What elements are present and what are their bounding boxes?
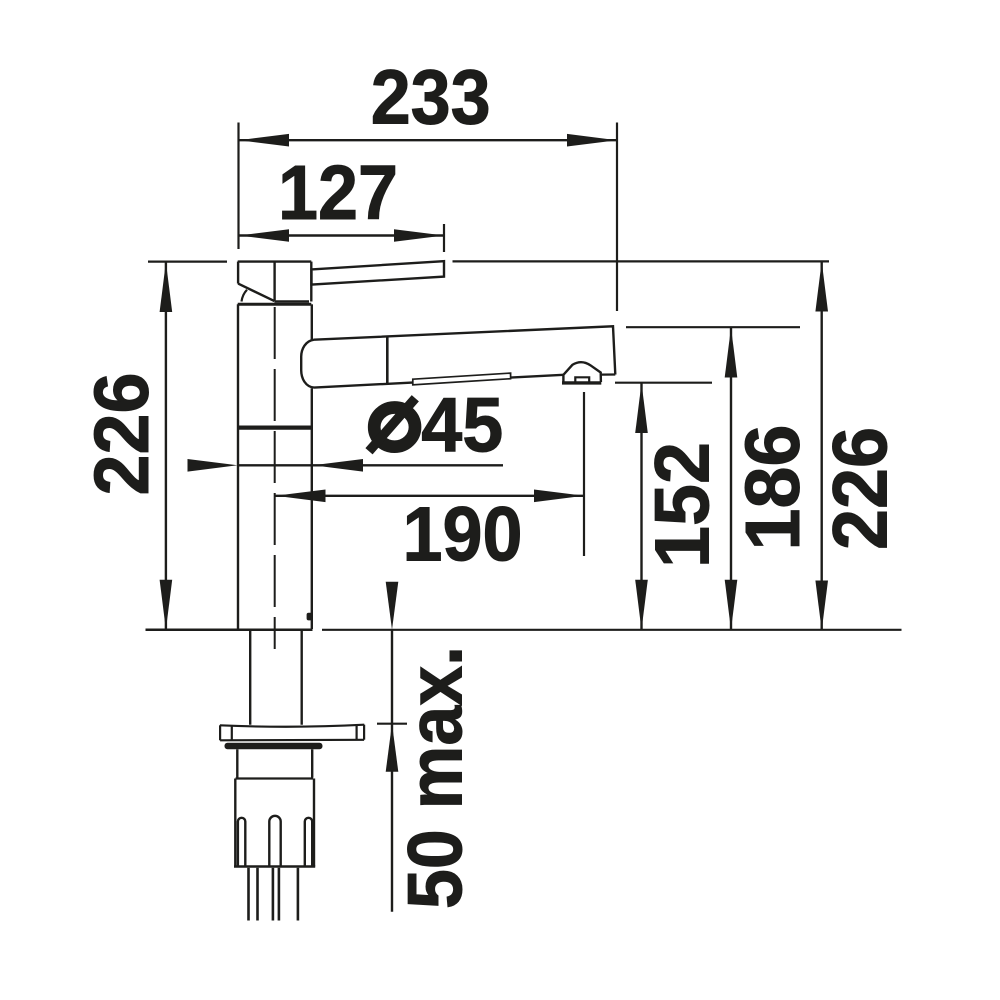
flange left edge	[219, 725, 221, 740]
body centerline dashed	[274, 307, 276, 649]
arrow 226 left bottom	[160, 580, 173, 630]
hose line 1	[247, 868, 250, 921]
shank left edge	[249, 631, 251, 725]
dimension line 127	[239, 234, 445, 236]
svg-text:186: 186	[730, 425, 816, 551]
dimension line 186	[730, 328, 732, 630]
flange right edge	[363, 725, 365, 740]
connector block right edge	[313, 779, 315, 867]
dimension line 233	[239, 139, 618, 141]
reference line top right	[453, 260, 830, 262]
flange inner left	[231, 725, 233, 740]
dimension line 50max middle	[391, 630, 393, 724]
connector block left edge	[234, 779, 236, 867]
aerator dome base thick line	[562, 381, 601, 384]
arrow 226 right top	[815, 262, 828, 312]
handle cap seam lower / body top	[238, 303, 312, 306]
connector slot 1	[238, 818, 245, 866]
connector slot 2	[269, 816, 280, 866]
dimension line 152	[640, 383, 642, 630]
body right edge upper	[311, 304, 313, 340]
flange inner right	[356, 725, 358, 740]
spout outline	[314, 326, 615, 374]
reference line 186	[626, 326, 800, 328]
arrow 233 left	[239, 134, 289, 147]
hose line 4	[278, 868, 281, 921]
hose line 5	[297, 868, 300, 921]
extension line 127 right	[443, 224, 445, 252]
reference line 152	[615, 382, 712, 384]
reference line top left	[148, 261, 227, 263]
extension line 233 left	[237, 123, 239, 250]
dimension line 190	[276, 495, 585, 497]
handle cap seam upper	[274, 300, 309, 303]
arrow 127 right	[394, 229, 444, 242]
counter line right segment	[322, 629, 902, 631]
dimension text Ø45 diameter symbol	[374, 408, 415, 447]
hose line 3	[272, 868, 275, 921]
neck left edge	[236, 749, 238, 777]
dimension line Ø45	[238, 464, 504, 466]
handle cap inner line	[273, 262, 275, 301]
gasket washer	[225, 743, 323, 750]
handle lever	[312, 261, 445, 284]
arrow 226 right bottom	[815, 581, 828, 631]
svg-text:50 max.: 50 max.	[393, 646, 479, 909]
arrow 127 left	[239, 229, 289, 242]
body right edge lower	[311, 388, 313, 629]
spout bottom edge	[314, 375, 563, 388]
svg-text:45: 45	[421, 383, 503, 469]
aerator inner rect	[575, 377, 589, 382]
arrow 50max up	[386, 724, 399, 772]
hose line 2	[256, 868, 259, 921]
arrow 152 top	[635, 383, 648, 433]
arrow 190 right	[534, 490, 584, 503]
set screw	[307, 613, 313, 621]
spout end bottom right	[602, 373, 616, 375]
handle cap top	[238, 260, 312, 262]
spout joint line	[386, 336, 389, 385]
dimension line 226 right	[821, 262, 823, 631]
flange bottom	[220, 739, 364, 742]
neck right edge	[311, 749, 313, 777]
svg-text:226: 226	[817, 427, 903, 550]
diameter symbol slash	[369, 398, 415, 451]
arrow 186 top	[725, 328, 738, 378]
shank right edge	[301, 631, 303, 725]
body joint thick line	[237, 425, 312, 429]
svg-text:152: 152	[640, 442, 726, 568]
connector block bottom	[234, 865, 315, 868]
arrow 50max down	[386, 582, 399, 630]
neck bottom line	[236, 777, 314, 779]
arrow Ø45 pointing right	[188, 459, 238, 472]
pull-out strip	[413, 373, 511, 385]
body left edge	[237, 304, 239, 629]
handle cap left edge	[237, 262, 239, 284]
extension line 190 right	[583, 392, 585, 556]
arrow 186 bottom	[725, 580, 738, 630]
dimension line 226 left	[165, 262, 167, 630]
extension line 233 right	[616, 123, 618, 312]
aerator dome	[563, 362, 601, 382]
handle cap corner arc	[242, 290, 248, 302]
svg-text:127: 127	[278, 150, 398, 236]
connector slot 3	[305, 818, 312, 866]
handle cap right edge	[310, 262, 312, 302]
svg-text:226: 226	[79, 373, 165, 496]
arrow 190 left	[276, 490, 326, 503]
flange top	[220, 725, 364, 727]
arrow Ø45 pointing left	[313, 459, 363, 472]
reference tick 50max	[377, 723, 407, 725]
dimension line 50max lower	[391, 724, 393, 912]
arrow 233 right	[567, 134, 617, 147]
spout left rounded end	[301, 340, 314, 388]
svg-text:190: 190	[403, 492, 523, 578]
svg-text:233: 233	[371, 55, 491, 141]
handle cap diagonal	[238, 284, 274, 302]
arrow 226 left top	[160, 262, 173, 312]
arrow 152 bottom	[635, 580, 648, 630]
counter line left segment	[146, 629, 313, 632]
